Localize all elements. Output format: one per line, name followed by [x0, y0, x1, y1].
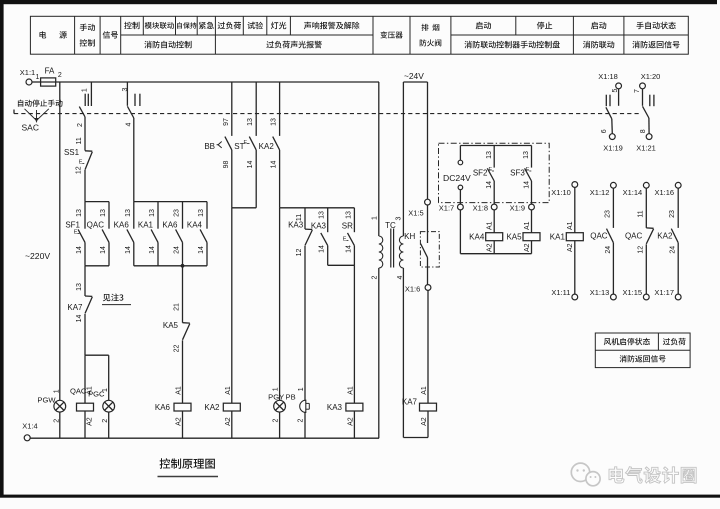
svg-text:13: 13: [319, 211, 326, 219]
svg-text:SAC: SAC: [22, 122, 39, 132]
watermark logo: [571, 463, 696, 486]
coil KA3: [327, 386, 363, 438]
svg-text:13: 13: [523, 151, 530, 159]
fuse FA: [36, 66, 62, 86]
pushbutton SS1 contact 11-12: [64, 137, 92, 202]
svg-text:1: 1: [82, 88, 89, 92]
contact KA3 13-14: [311, 208, 328, 265]
wire 24V return: [403, 437, 428, 439]
terminal X1:18: [598, 72, 621, 89]
svg-text:12: 12: [76, 166, 83, 174]
svg-text:1: 1: [298, 387, 305, 391]
svg-text:PGC: PGC: [88, 389, 105, 398]
terminal X1:8: [473, 203, 498, 212]
svg-text:KA6: KA6: [155, 403, 171, 412]
svg-text:DC24V: DC24V: [443, 173, 471, 183]
svg-text:23: 23: [174, 209, 181, 217]
svg-text:2: 2: [77, 123, 84, 127]
contact QAC 13-14: [87, 202, 109, 266]
svg-text:12: 12: [637, 246, 644, 254]
svg-text:X1:12: X1:12: [590, 188, 610, 197]
svg-text:7: 7: [634, 89, 641, 93]
coil KA4: [469, 210, 503, 254]
svg-text:14: 14: [319, 245, 326, 253]
svg-text:14: 14: [523, 181, 530, 189]
wire left 220V rail: [59, 82, 61, 438]
svg-text:A1: A1: [421, 386, 428, 395]
terminal X1:19: [603, 134, 623, 153]
coil KA1: [550, 187, 584, 294]
svg-text:13: 13: [198, 209, 205, 217]
svg-text:E: E: [343, 237, 347, 243]
svg-text:24: 24: [174, 246, 181, 254]
svg-text:SF3: SF3: [510, 168, 525, 177]
svg-text:13: 13: [247, 118, 254, 126]
svg-text:11: 11: [76, 137, 83, 144]
svg-text:X1:20: X1:20: [641, 72, 661, 81]
svg-text:2: 2: [371, 275, 378, 279]
coil KA5: [506, 210, 540, 254]
pushbutton SF1 contact 13-14: [65, 202, 85, 266]
svg-text:KH: KH: [404, 232, 415, 241]
svg-text:A1: A1: [567, 221, 574, 230]
svg-text:A2: A2: [524, 243, 531, 252]
svg-text:KA3: KA3: [311, 221, 327, 230]
wire SF1/QAC branch top: [85, 201, 109, 203]
wire KA3/SR join: [328, 265, 355, 403]
wire bottom 220V bus: [30, 437, 379, 439]
svg-text:KA5: KA5: [163, 321, 179, 330]
contact KA6 23-24: [162, 202, 182, 266]
svg-text:SF1: SF1: [65, 220, 80, 229]
svg-text:14: 14: [149, 246, 156, 254]
svg-text:KA1: KA1: [138, 220, 154, 229]
svg-text:8: 8: [640, 129, 647, 133]
lamp PGW: [37, 389, 65, 423]
svg-text:3: 3: [396, 216, 403, 220]
selector switch SAC dashed line: [14, 110, 640, 114]
svg-text:SS1: SS1: [64, 148, 80, 157]
svg-text:2: 2: [102, 419, 109, 423]
svg-text:X1:5: X1:5: [408, 209, 423, 218]
svg-text:SR: SR: [342, 221, 353, 230]
contact KA7 13-14: [67, 266, 92, 355]
pushbutton SR contact 13-14: [342, 208, 355, 265]
transformer TC: [371, 82, 403, 438]
svg-text:1: 1: [371, 216, 378, 220]
note 3 label: [102, 294, 131, 305]
svg-text:13: 13: [486, 151, 493, 159]
svg-text:12: 12: [296, 249, 303, 257]
svg-text:TC: TC: [385, 221, 396, 230]
coil KA2: [204, 208, 240, 438]
coil QAC: [70, 386, 94, 438]
terminal X1:17: [654, 288, 681, 300]
svg-text:FA: FA: [45, 66, 55, 75]
terminal X1:14: [623, 182, 650, 196]
contact BB 97-98: [204, 82, 231, 208]
wire KA6..KA4 branch top: [134, 201, 207, 203]
svg-text:X1:10: X1:10: [551, 188, 571, 197]
terminal X1:13: [590, 288, 617, 300]
svg-text:QAC: QAC: [590, 231, 608, 240]
fire feedback signal table: [595, 333, 690, 368]
lamp PGY: [268, 387, 285, 438]
svg-text:A2: A2: [347, 417, 354, 426]
wire contact3-4 down: [133, 118, 135, 202]
terminal X1:20: [640, 72, 661, 89]
selector SAC contact 3-4: [122, 82, 140, 126]
svg-text:E: E: [79, 160, 83, 166]
svg-text:X1:21: X1:21: [636, 144, 656, 153]
svg-text:6: 6: [601, 129, 608, 133]
svg-text:2: 2: [273, 418, 280, 422]
contact KA6 13-14: [114, 202, 134, 266]
svg-text:23: 23: [604, 210, 611, 218]
svg-text:2: 2: [58, 72, 62, 79]
svg-text:KA7: KA7: [67, 303, 83, 312]
svg-text:KA4: KA4: [469, 233, 485, 242]
svg-text:2: 2: [53, 419, 60, 423]
wire X1:1 to fuse: [32, 81, 41, 83]
svg-text:KA6: KA6: [114, 220, 130, 229]
contact KA5 21-22: [163, 266, 190, 404]
terminal X1:12: [590, 182, 617, 196]
svg-text:23: 23: [669, 210, 676, 218]
svg-text:X1:19: X1:19: [603, 144, 623, 153]
svg-text:X1:15: X1:15: [622, 288, 642, 297]
svg-text:13: 13: [271, 118, 278, 126]
wire KA4/KA5 common: [460, 253, 531, 255]
terminal X1:21: [636, 134, 656, 153]
wire KA2 rail to PGY: [279, 208, 281, 400]
svg-text:13: 13: [76, 209, 83, 217]
terminal X1:1: [20, 68, 35, 85]
terminal X1:9: [510, 203, 535, 212]
svg-text:13: 13: [125, 209, 132, 217]
svg-text:1: 1: [53, 389, 60, 393]
wire SF1/QAC branch bottom: [85, 265, 109, 267]
svg-text:KA2: KA2: [259, 142, 275, 151]
terminal X1:15: [622, 288, 649, 300]
caption control schematic title: [158, 458, 219, 476]
wire KA2 to SR branch: [280, 207, 355, 209]
svg-text:E: E: [74, 230, 78, 236]
wire BB-ST join: [232, 207, 256, 209]
pushbutton SF3 contact 13-14: [510, 146, 531, 205]
power supply DC24V box: [439, 143, 550, 204]
svg-text:KA2: KA2: [657, 231, 673, 240]
svg-text:KA1: KA1: [550, 233, 566, 242]
svg-text:22: 22: [174, 345, 181, 353]
svg-text:KA3: KA3: [327, 403, 343, 412]
svg-text:98: 98: [223, 161, 230, 169]
svg-text:2: 2: [298, 418, 305, 422]
wire contact1-2 to SS1: [84, 117, 86, 151]
selector SAC contact 7-8: [634, 89, 654, 134]
svg-text:~220V: ~220V: [25, 251, 50, 261]
svg-text:A2: A2: [176, 417, 183, 426]
svg-text:X1:14: X1:14: [623, 188, 643, 197]
svg-text:14: 14: [198, 246, 205, 254]
terminal X1:11: [551, 288, 577, 300]
svg-text:KA5: KA5: [506, 233, 522, 242]
svg-text:13: 13: [149, 209, 156, 217]
svg-text:X1:16: X1:16: [654, 188, 674, 197]
svg-text:X1:6: X1:6: [405, 285, 420, 294]
svg-text:X1:18: X1:18: [598, 72, 618, 81]
svg-text:11: 11: [637, 210, 644, 217]
svg-text:14: 14: [76, 315, 83, 323]
terminal X1:6: [405, 285, 431, 404]
pushbutton ST contact 13-14: [234, 82, 256, 208]
contact KA2 23-24: [657, 188, 678, 294]
svg-text:A2: A2: [567, 243, 574, 252]
svg-text:X1:11: X1:11: [551, 288, 570, 297]
svg-text:A2: A2: [225, 417, 232, 426]
svg-text:X1:17: X1:17: [654, 288, 674, 297]
svg-text:24: 24: [605, 246, 612, 254]
svg-text:PB: PB: [286, 392, 296, 401]
svg-text:14: 14: [76, 246, 83, 254]
wire KA6..KA4 branch bottom: [134, 265, 207, 267]
svg-text:A2: A2: [487, 243, 494, 252]
svg-text:4: 4: [126, 122, 133, 126]
contact KA1 13-14: [138, 202, 158, 266]
svg-text:SF2: SF2: [473, 168, 488, 177]
terminal X1:7: [439, 203, 464, 212]
wire 24V bus: [403, 81, 427, 83]
wire X1:7 drop: [459, 210, 461, 254]
contact QAC 11-12: [625, 188, 654, 294]
svg-text:1: 1: [36, 74, 40, 81]
svg-text:PGY: PGY: [268, 392, 284, 401]
svg-text:5: 5: [612, 89, 619, 93]
coil KA6: [155, 386, 191, 438]
svg-text:A1: A1: [487, 221, 494, 230]
svg-text:A1: A1: [176, 386, 183, 395]
svg-text:E: E: [243, 140, 247, 146]
buzzer PB: [286, 387, 310, 438]
label ~24V: [404, 71, 424, 81]
selector SAC contact 5-6: [601, 89, 619, 134]
svg-text:X1:9: X1:9: [510, 203, 525, 212]
svg-text:QAC: QAC: [625, 231, 643, 240]
svg-text:A2: A2: [87, 417, 94, 426]
terminal X1:10: [551, 182, 578, 197]
svg-text:KA3: KA3: [288, 221, 304, 230]
svg-text:X1:8: X1:8: [473, 203, 488, 212]
svg-text:14: 14: [100, 246, 107, 254]
svg-text:3: 3: [122, 87, 129, 91]
svg-text:QAC: QAC: [87, 220, 105, 229]
svg-text:24: 24: [670, 246, 677, 254]
contact KA4 13-14: [187, 202, 207, 266]
svg-text:~24V: ~24V: [404, 71, 424, 81]
svg-text:4: 4: [397, 275, 404, 279]
svg-text:14: 14: [345, 245, 352, 253]
svg-text:A1: A1: [225, 386, 232, 395]
svg-text:E: E: [526, 167, 530, 173]
svg-text:X1:7: X1:7: [439, 203, 454, 212]
svg-text:E: E: [488, 167, 492, 173]
svg-text:21: 21: [174, 303, 181, 311]
svg-text:KA6: KA6: [162, 220, 178, 229]
contact KA2 13-14: [259, 82, 280, 208]
wire KA7 to QAC coil / PGC lamp: [85, 355, 109, 403]
wire top 220V bus: [61, 81, 379, 83]
svg-text:X1:1: X1:1: [20, 68, 35, 77]
svg-text:KA7: KA7: [402, 397, 418, 406]
contact QAC 23-24: [590, 188, 613, 294]
svg-text:QAC: QAC: [70, 386, 87, 395]
svg-text:X1:13: X1:13: [590, 288, 610, 297]
svg-text:A1: A1: [347, 386, 354, 395]
svg-text:1: 1: [273, 387, 280, 391]
selector SAC contact 1-2: [77, 82, 92, 127]
svg-text:KA2: KA2: [204, 403, 220, 412]
function designation table: [30, 16, 688, 54]
svg-text:PGW: PGW: [37, 396, 56, 405]
terminal X1:16: [654, 182, 681, 196]
svg-text:14: 14: [125, 246, 132, 254]
svg-text:A2: A2: [421, 417, 428, 426]
svg-text:A1: A1: [524, 221, 531, 230]
contact KA3 11-12: [288, 208, 312, 401]
coil KA7: [402, 386, 437, 437]
label SAC note: [18, 100, 63, 133]
svg-text:13: 13: [100, 209, 107, 217]
svg-text:KA4: KA4: [187, 220, 203, 229]
node junction KA6/KA4 bottom: [181, 264, 185, 268]
thermal contact KH: [404, 205, 439, 285]
pushbutton SF2 contact 13-14: [473, 146, 494, 205]
svg-text:14: 14: [247, 161, 254, 169]
svg-text:14: 14: [486, 181, 493, 189]
svg-text:14: 14: [271, 161, 278, 169]
label ~220V: [25, 251, 50, 261]
lamp PGC: [88, 388, 115, 438]
svg-text:BB: BB: [204, 142, 215, 151]
svg-text:97: 97: [223, 118, 230, 126]
svg-text:X1:4: X1:4: [22, 422, 37, 431]
svg-text:13: 13: [76, 283, 83, 291]
svg-text:13: 13: [345, 211, 352, 219]
terminal X1:4: [22, 422, 37, 441]
terminal X1:5: [408, 82, 430, 218]
